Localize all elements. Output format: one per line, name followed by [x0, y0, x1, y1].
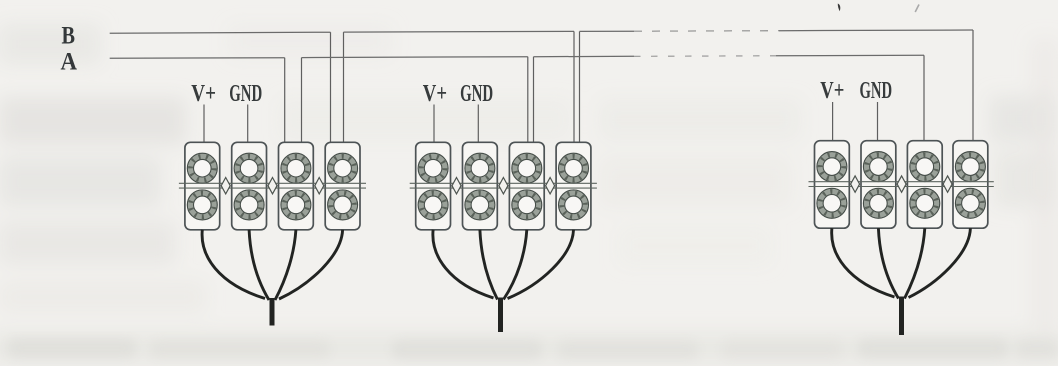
wire: bus B segment 1 [110, 32, 331, 33]
wire: V+ lead of block X2 [433, 105, 435, 143]
terminal X2.3 body [509, 142, 544, 230]
wire: bus A segment 3 (solid before break) [534, 55, 635, 57]
cable wire 2 of block X2 [480, 230, 498, 300]
terminal strip rail (upper) X2 [410, 182, 597, 184]
cable wire 2 of block X3 [878, 228, 898, 298]
link diamond X3 gap 1 [851, 176, 860, 192]
wire: V+ lead of block X3 [832, 102, 834, 141]
terminal X1.1 body [185, 142, 220, 230]
cable bundle of block X1 [202, 230, 343, 326]
svg-text:GND: GND [460, 81, 493, 107]
terminal X3.3 body [907, 141, 942, 229]
terminal X1.3 body [279, 142, 314, 230]
wire: bus B drop into block X1 terminal 4 [330, 32, 332, 142]
wire: bus A riser out of block X1 terminal 3 [301, 58, 303, 143]
wire: bus A continuation break (dashed) [634, 55, 776, 58]
cable wire 4 of block X3 [909, 228, 971, 297]
wire: bus B segment 4 [779, 29, 973, 32]
cable bundle of block X3 [832, 228, 971, 335]
svg-text:V+: V+ [423, 81, 447, 107]
terminal X2.2 body [463, 142, 498, 230]
wire: bus B segment 2 [344, 30, 575, 33]
cable wire 1 of block X2 [433, 230, 494, 298]
cable wire 4 of block X2 [508, 230, 574, 299]
svg-text:V+: V+ [820, 78, 844, 104]
wire: bus B drop into block X3 terminal 4 [972, 30, 974, 141]
terminal block X1 [179, 142, 366, 230]
wire: bus A drop into block X3 terminal 3 [923, 55, 925, 140]
cable wire 3 of block X3 [905, 228, 925, 298]
terminal X3.4 body [953, 141, 988, 229]
wire: GND lead of block X1 [247, 105, 249, 143]
terminal strip rail (upper) X3 [809, 181, 994, 183]
link diamond X1 gap 2 [268, 178, 277, 194]
terminal strip rail (lower) X3 [809, 186, 994, 188]
svg-text:GND: GND [229, 81, 262, 107]
terminal X3.2 body [861, 141, 896, 229]
wire: bus A segment 4 [776, 54, 924, 57]
cable tail of block X2 [498, 298, 503, 333]
terminal strip rail (lower) X1 [179, 187, 366, 189]
svg-text:A: A [61, 49, 78, 76]
wire: V+ lead of block X1 [203, 105, 205, 143]
cable wire 1 of block X3 [832, 228, 895, 297]
wire: bus B continuation break (dashed) [634, 30, 779, 33]
svg-text:GND: GND [860, 78, 893, 104]
scan speck (light slash) top right [915, 5, 919, 13]
terminal X2.4 body [556, 142, 591, 230]
link diamond X1 gap 1 [221, 178, 230, 194]
link diamond X1 gap 3 [315, 178, 324, 194]
wire: bus A drop into block X1 terminal 3 [284, 58, 286, 143]
terminal block X2 [410, 142, 597, 230]
cable tail of block X3 [899, 297, 904, 336]
terminal X2.1 body [416, 142, 451, 230]
wire: GND lead of block X3 [877, 102, 879, 141]
link diamond X2 gap 2 [499, 178, 508, 194]
cable tail of block X1 [270, 298, 275, 326]
wire: bus B riser out of block X2 terminal 4 [579, 31, 581, 142]
wire: bus A segment 1 [110, 57, 285, 60]
wire: bus B riser out of block X1 terminal 4 [343, 32, 345, 142]
terminal X1.4 body [325, 142, 360, 230]
scan speck (dark) top right [838, 4, 841, 12]
link diamond X3 gap 3 [943, 176, 952, 192]
link diamond X2 gap 1 [452, 178, 461, 194]
terminal X1.2 body [232, 142, 267, 230]
terminal strip rail (upper) X1 [179, 182, 366, 184]
cable wire 2 of block X1 [249, 230, 269, 300]
cable wire 4 of block X1 [279, 230, 343, 299]
wire: bus B drop into block X2 terminal 4 [573, 31, 575, 142]
link diamond X2 gap 3 [546, 178, 555, 194]
wire: bus B segment 3 (solid before break) [580, 30, 635, 32]
cable wire 1 of block X1 [202, 230, 265, 299]
terminal block X3 [809, 141, 994, 229]
cable wire 3 of block X2 [504, 230, 527, 300]
svg-text:B: B [62, 23, 76, 50]
wire: bus A riser out of block X2 terminal 3 [533, 57, 535, 143]
wire: GND lead of block X2 [477, 105, 479, 143]
cable bundle of block X2 [433, 230, 574, 332]
link diamond X3 gap 2 [897, 176, 906, 192]
terminal strip rail (lower) X2 [410, 187, 597, 189]
wire: bus A drop into block X2 terminal 3 [527, 57, 529, 143]
wire: bus A segment 2 [302, 56, 528, 59]
terminal X3.1 body [815, 141, 850, 229]
cable wire 3 of block X1 [275, 230, 296, 300]
svg-text:V+: V+ [191, 81, 216, 107]
